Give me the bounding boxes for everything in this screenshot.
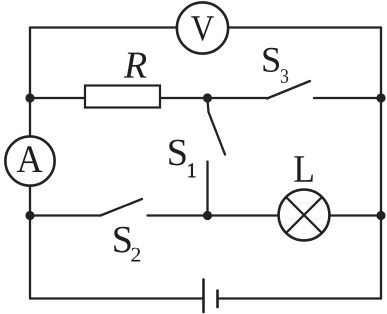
label S1 [169,140,195,178]
label S3 [263,48,288,83]
node: R / S3 / S1 junction [203,93,212,102]
wire top-left (battery+ rail to voltmeter) [30,26,177,28]
battery BT1 long plate [202,280,205,313]
wire left rail lower (ammeter to bottom corner) [29,186,31,299]
node: S2 / S1 / lamp junction [203,211,212,220]
switch S1 lower contact stub [206,162,208,216]
wire lamp L to right rail [330,214,382,216]
wire node A to resistor R [30,97,85,99]
switch S1 blade [208,100,226,155]
label S2 [114,227,140,262]
switch S2 blade [101,199,143,216]
node: right rail / S3 junction [376,93,385,102]
label R [124,53,147,78]
wire node C to switch S2 contact [30,214,101,216]
node: right rail / lamp junction [376,211,385,220]
wire switch S2 right contact to lamp L [148,214,279,216]
wire right rail [380,28,382,299]
battery BT1 short plate [216,291,219,308]
lamp L [279,190,330,241]
wire top-right (voltmeter to right rail) [228,26,381,28]
voltmeter V1 [177,2,228,53]
wire bottom-right (battery to right rail) [218,297,382,299]
wire left rail upper (top corner to ammeter) [29,28,31,137]
node: left rail / R branch junction [25,93,34,102]
wire bottom-left (to battery) [30,297,203,299]
ammeter A1 [5,136,54,185]
resistor R [85,86,160,108]
switch S3 blade [267,81,310,99]
wire resistor R to switch S3 contact [160,97,267,99]
node: left rail / S2 branch junction [25,211,34,220]
wire switch S3 right contact to right rail [314,97,381,99]
label L [294,156,313,182]
